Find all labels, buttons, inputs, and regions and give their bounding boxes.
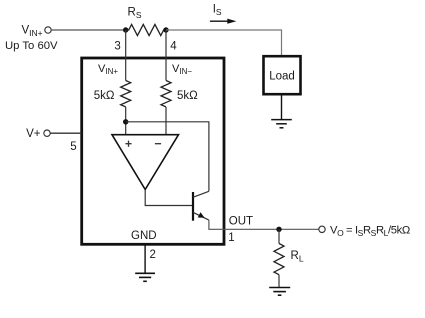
IC body outline U1 bbox=[82, 58, 224, 244]
load block bbox=[264, 56, 301, 94]
svg-text:VIN+: VIN+ bbox=[22, 25, 43, 39]
svg-text:5: 5 bbox=[70, 141, 76, 153]
wire left 5k to op-amp + input bbox=[125, 107, 127, 135]
arrow IS current direction bbox=[210, 20, 229, 22]
wire RL to ground bbox=[278, 275, 280, 288]
transistor Q1 emitter arrow bbox=[198, 212, 205, 218]
transistor Q1 base bar bbox=[192, 192, 194, 221]
svg-text:Load: Load bbox=[269, 71, 295, 83]
svg-text:GND: GND bbox=[131, 230, 157, 242]
wire GND pin 2 to ground bbox=[144, 246, 146, 274]
resistor 5k (right, VIN- side) bbox=[161, 81, 171, 107]
svg-text:2: 2 bbox=[150, 249, 156, 261]
svg-text:5kΩ: 5kΩ bbox=[94, 90, 115, 102]
node 3 junction bbox=[123, 27, 128, 32]
wire output node to RL bbox=[278, 229, 280, 243]
terminal VO bbox=[319, 226, 325, 232]
wire Load to ground bbox=[281, 94, 283, 119]
svg-text:RL: RL bbox=[291, 250, 304, 264]
wire feedback junction to collector bbox=[126, 122, 209, 192]
op-amp - input mark bbox=[155, 143, 161, 145]
node output junction bbox=[276, 227, 281, 232]
svg-text:5kΩ: 5kΩ bbox=[177, 90, 198, 102]
svg-text:VIN+: VIN+ bbox=[98, 63, 118, 76]
svg-text:1: 1 bbox=[228, 232, 234, 244]
wire node 4 to Load bbox=[166, 30, 282, 55]
transistor Q1 emitter bbox=[193, 212, 209, 220]
svg-text:4: 4 bbox=[170, 40, 177, 52]
terminal VIN+ bbox=[45, 27, 51, 33]
resistor RS bbox=[126, 24, 167, 35]
svg-text:V+: V+ bbox=[26, 128, 41, 140]
wire op-amp output to base of Q1 bbox=[145, 190, 192, 206]
node feedback junction bbox=[123, 119, 128, 124]
wire pin 3 rail (VIN+ input) bbox=[125, 30, 127, 81]
wire pin 4 rail (VIN- input) bbox=[165, 30, 167, 81]
svg-text:VO = ISRSRL/5kΩ: VO = ISRSRL/5kΩ bbox=[330, 224, 410, 238]
wire V+ terminal to pin 5 bbox=[50, 132, 81, 134]
op-amp U1 bbox=[112, 135, 179, 190]
svg-text:Up To 60V: Up To 60V bbox=[5, 40, 58, 52]
wire VIN+ terminal to node 3 bbox=[51, 29, 126, 31]
ground (below pin 2) bbox=[135, 273, 155, 281]
svg-text:VIN−: VIN− bbox=[172, 63, 192, 76]
resistor RL bbox=[274, 244, 284, 275]
svg-text:OUT: OUT bbox=[229, 216, 253, 228]
node 4 junction bbox=[163, 27, 168, 32]
ground (below Load) bbox=[271, 120, 292, 128]
resistor 5k (left, VIN+ side) bbox=[121, 81, 131, 107]
svg-text:RS: RS bbox=[128, 7, 142, 21]
transistor Q1 collector bbox=[193, 191, 209, 197]
terminal V+ bbox=[44, 130, 50, 136]
svg-text:IS: IS bbox=[213, 3, 222, 17]
svg-text:3: 3 bbox=[114, 40, 120, 52]
wire emitter to OUT pin and VO terminal bbox=[209, 220, 319, 229]
wire right 5k to op-amp - input bbox=[165, 107, 167, 135]
ground (below RL) bbox=[269, 288, 290, 296]
op-amp + input mark bbox=[125, 141, 131, 147]
